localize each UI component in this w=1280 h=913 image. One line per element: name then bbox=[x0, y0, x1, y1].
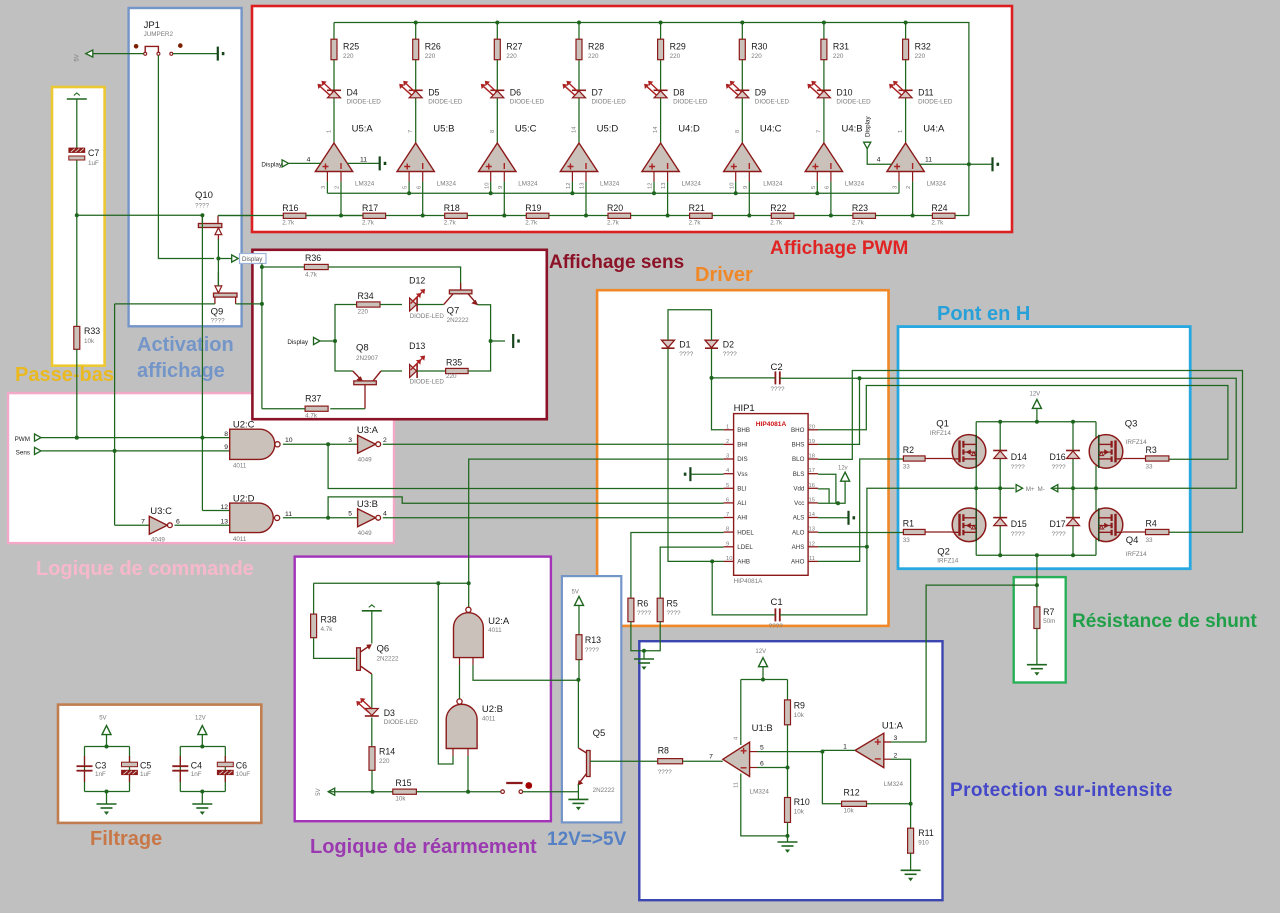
wire bridge top rail bbox=[976, 421, 1096, 423]
svg-text:12V: 12V bbox=[1030, 392, 1041, 398]
power arrow 12V at Vcc bbox=[838, 466, 850, 482]
nand U2:C bbox=[224, 420, 293, 470]
resistor R33 bbox=[74, 326, 100, 349]
svg-text:Q7: Q7 bbox=[447, 305, 460, 316]
svg-text:Q2: Q2 bbox=[937, 546, 950, 557]
wire U1:A pin2 to R12 right bbox=[891, 759, 911, 828]
power symbol at U5:A pin11 bbox=[380, 156, 387, 170]
svg-text:DIS: DIS bbox=[737, 456, 747, 463]
LED D10 bbox=[807, 81, 871, 106]
svg-text:D6: D6 bbox=[510, 88, 521, 98]
svg-text:R18: R18 bbox=[444, 203, 460, 213]
svg-text:LDEL: LDEL bbox=[737, 544, 753, 551]
svg-text:HIP4081A: HIP4081A bbox=[756, 421, 787, 428]
svg-text:10k: 10k bbox=[794, 809, 805, 816]
ground below R10 bbox=[778, 842, 798, 853]
svg-text:2.7k: 2.7k bbox=[525, 220, 538, 227]
svg-text:U3:C: U3:C bbox=[150, 506, 172, 517]
svg-text:????: ???? bbox=[1011, 464, 1026, 471]
resistor R1 bbox=[903, 519, 925, 545]
svg-text:4.7k: 4.7k bbox=[305, 272, 318, 279]
diode D2 bbox=[705, 339, 737, 358]
svg-text:R9: R9 bbox=[794, 701, 805, 711]
svg-text:????: ???? bbox=[1052, 531, 1067, 538]
jumper JP1 bbox=[134, 20, 183, 55]
title Activation affichage line2 bbox=[137, 360, 225, 382]
svg-text:12V=>5V: 12V=>5V bbox=[547, 829, 627, 850]
resistor R6 bbox=[628, 598, 652, 622]
svg-text:R17: R17 bbox=[362, 203, 378, 213]
svg-text:4011: 4011 bbox=[488, 627, 502, 634]
svg-text:R3: R3 bbox=[1146, 445, 1157, 455]
switch reset button bbox=[501, 782, 532, 793]
wire JP1 pin3 to power bbox=[173, 53, 217, 55]
wire net BHI from U3:A to HIP pin2 bbox=[383, 443, 724, 445]
svg-text:D17: D17 bbox=[1050, 519, 1066, 529]
svg-text:2: 2 bbox=[726, 439, 729, 445]
svg-text:R13: R13 bbox=[585, 635, 601, 645]
svg-text:5V: 5V bbox=[572, 590, 579, 596]
svg-text:2.7k: 2.7k bbox=[931, 220, 944, 227]
resistor R9 bbox=[785, 700, 806, 725]
svg-text:9: 9 bbox=[726, 541, 729, 547]
svg-text:affichage: affichage bbox=[137, 360, 225, 382]
wire rail to R36 bbox=[262, 266, 305, 268]
svg-text:U4:C: U4:C bbox=[760, 124, 782, 135]
svg-text:Q1: Q1 bbox=[936, 419, 949, 430]
svg-text:????: ???? bbox=[658, 769, 673, 776]
terminal 5V left arrow bbox=[316, 788, 335, 796]
svg-text:????: ???? bbox=[1052, 464, 1067, 471]
svg-text:R5: R5 bbox=[667, 599, 678, 609]
svg-text:9: 9 bbox=[498, 186, 504, 189]
svg-text:10k: 10k bbox=[844, 808, 855, 815]
wire switch to ground node bbox=[523, 791, 579, 793]
wire D13 to R35 bbox=[417, 370, 446, 372]
region box Activation affichage bbox=[129, 8, 242, 326]
svg-text:U5:C: U5:C bbox=[515, 124, 537, 135]
resistor R24 bbox=[931, 203, 955, 227]
svg-text:13: 13 bbox=[220, 518, 228, 525]
inverter U3:C bbox=[149, 506, 180, 544]
svg-text:ALI: ALI bbox=[737, 500, 747, 507]
svg-text:DIODE-LED: DIODE-LED bbox=[347, 99, 382, 106]
svg-text:R31: R31 bbox=[833, 42, 849, 52]
svg-text:4011: 4011 bbox=[233, 536, 247, 543]
svg-text:Display: Display bbox=[865, 116, 872, 137]
nand U2:D bbox=[220, 493, 292, 543]
region box Filtrage bbox=[58, 705, 261, 823]
svg-text:C7: C7 bbox=[88, 148, 99, 158]
transistor Q9 bbox=[211, 272, 237, 325]
terminal M- bbox=[1038, 485, 1058, 494]
wire R14 to bottom row bbox=[371, 770, 373, 791]
svg-text:13: 13 bbox=[580, 183, 586, 189]
svg-text:R6: R6 bbox=[637, 599, 648, 609]
title Activation affichage line1 bbox=[137, 334, 234, 356]
region box Logique de rearmement bbox=[295, 557, 551, 822]
svg-text:R37: R37 bbox=[305, 393, 321, 403]
svg-text:Q8: Q8 bbox=[356, 343, 369, 354]
svg-text:12v: 12v bbox=[838, 466, 848, 472]
svg-text:U2:C: U2:C bbox=[233, 420, 255, 431]
wire net BLO to R4 bbox=[818, 371, 1242, 533]
svg-text:1: 1 bbox=[898, 130, 904, 133]
op-amp U4:B bbox=[805, 124, 864, 190]
power arrow 5V filtrage bbox=[99, 715, 111, 734]
resistor R28 bbox=[576, 39, 604, 60]
wire junction to Display terminal bbox=[218, 258, 231, 260]
svg-text:R16: R16 bbox=[282, 203, 298, 213]
op-amp U1:A bbox=[843, 721, 904, 788]
wire rail to U2:B input left bbox=[438, 583, 453, 764]
svg-text:10: 10 bbox=[285, 437, 293, 444]
wire 12V rail protection bbox=[762, 667, 764, 680]
wire R34 to D12 bbox=[380, 304, 402, 306]
wire U5:D inputs bbox=[571, 182, 573, 194]
svg-text:R7: R7 bbox=[1043, 607, 1054, 617]
svg-text:C1: C1 bbox=[771, 597, 783, 608]
svg-text:4.7k: 4.7k bbox=[305, 413, 318, 420]
title Resistance de shunt bbox=[1072, 611, 1257, 632]
wire U4:B inputs bbox=[816, 182, 818, 194]
wire Q5 emitter to ground bbox=[577, 784, 579, 799]
svg-text:220: 220 bbox=[343, 53, 354, 60]
svg-text:14: 14 bbox=[653, 126, 659, 133]
svg-text:R35: R35 bbox=[446, 357, 462, 367]
nand U2:B rotated bbox=[446, 699, 503, 756]
svg-text:R29: R29 bbox=[670, 42, 686, 52]
wire mid rail right M- bbox=[1051, 487, 1190, 489]
svg-text:????: ???? bbox=[771, 386, 786, 393]
wire R11 to ground bbox=[910, 853, 912, 870]
capacitor C7 bbox=[69, 148, 100, 167]
wire U2:D out bbox=[283, 517, 358, 519]
svg-text:HIP4081A: HIP4081A bbox=[734, 578, 764, 585]
capacitor C1 bbox=[769, 597, 784, 630]
region box Resistance de shunt bbox=[1014, 577, 1066, 682]
svg-text:Display: Display bbox=[287, 339, 308, 346]
diode D14 bbox=[993, 451, 1027, 472]
svg-text:Affichage sens: Affichage sens bbox=[549, 252, 684, 273]
svg-text:LM324: LM324 bbox=[437, 181, 457, 188]
svg-text:R20: R20 bbox=[607, 203, 623, 213]
svg-text:Résistance de shunt: Résistance de shunt bbox=[1072, 611, 1257, 632]
svg-text:Q9: Q9 bbox=[211, 306, 224, 317]
terminal M+ bbox=[1016, 485, 1035, 494]
wire Q10 gate bus vertical bbox=[201, 215, 203, 510]
resistor R18 bbox=[444, 203, 468, 227]
transistor Q10 bbox=[195, 190, 222, 240]
svg-text:D9: D9 bbox=[755, 88, 766, 98]
power arrow 12V bridge bbox=[1030, 392, 1042, 409]
power symbol at JP1 bbox=[218, 47, 225, 61]
svg-text:U5:D: U5:D bbox=[597, 124, 619, 135]
ground above Q6 bbox=[362, 605, 382, 611]
diode D16 bbox=[1050, 451, 1080, 472]
region box Passe-bas bbox=[52, 87, 105, 366]
svg-text:1nF: 1nF bbox=[191, 771, 202, 778]
wire 12V to Vcc Vdd BLS bbox=[818, 481, 845, 503]
svg-text:R4: R4 bbox=[1146, 519, 1157, 529]
svg-text:Vdd: Vdd bbox=[793, 486, 805, 493]
svg-text:2.7k: 2.7k bbox=[770, 220, 783, 227]
wire Q9 drain right to sens rail bbox=[236, 303, 262, 305]
svg-text:R10: R10 bbox=[794, 797, 810, 807]
svg-text:Driver: Driver bbox=[695, 264, 753, 286]
svg-text:6: 6 bbox=[726, 497, 729, 503]
svg-text:9: 9 bbox=[224, 444, 228, 451]
svg-text:12V: 12V bbox=[755, 649, 766, 655]
svg-text:DIODE-LED: DIODE-LED bbox=[592, 99, 627, 106]
svg-text:2.7k: 2.7k bbox=[444, 220, 457, 227]
wire R33 to PWM bus bbox=[76, 349, 78, 437]
title Driver bbox=[695, 264, 753, 286]
diode D17 bbox=[1050, 518, 1080, 538]
terminal PWM bbox=[15, 434, 41, 443]
ground filtrage C3 bbox=[97, 792, 117, 815]
ground filtrage C4 bbox=[192, 792, 212, 815]
svg-text:DIODE-LED: DIODE-LED bbox=[918, 99, 953, 106]
terminal Display input of U5:A bbox=[261, 160, 288, 169]
wire Q9 gate from Display junction bbox=[217, 259, 219, 286]
svg-text:12: 12 bbox=[648, 183, 654, 189]
wire Q10 gate to Display junction bbox=[217, 239, 219, 259]
svg-text:D3: D3 bbox=[384, 708, 395, 718]
op-amp U5:D bbox=[560, 124, 619, 190]
svg-text:33: 33 bbox=[903, 464, 911, 471]
terminal Display input of U4:A bbox=[864, 116, 872, 149]
svg-text:8: 8 bbox=[224, 431, 228, 438]
resistor R21 bbox=[689, 203, 713, 227]
resistor R22 bbox=[770, 203, 794, 227]
power symbol sens bbox=[513, 334, 520, 348]
svg-text:DIODE-LED: DIODE-LED bbox=[428, 99, 463, 106]
wire Q3 gate to R3 bbox=[1123, 458, 1146, 460]
wire D12 to Q7 base bbox=[417, 304, 444, 306]
svg-text:18: 18 bbox=[809, 454, 815, 460]
svg-text:220: 220 bbox=[588, 53, 599, 60]
svg-text:4: 4 bbox=[307, 157, 311, 164]
svg-text:D11: D11 bbox=[918, 88, 934, 98]
wire chain segment after R21 bbox=[712, 215, 771, 217]
wire U5:A inputs bbox=[326, 182, 328, 194]
wire gnd to C7 bbox=[76, 99, 78, 148]
svg-text:????: ???? bbox=[195, 203, 210, 210]
wire ALS to power bbox=[818, 517, 847, 519]
transistor Q8 bbox=[353, 343, 381, 409]
svg-text:DIODE-LED: DIODE-LED bbox=[510, 99, 545, 106]
svg-text:2N2222: 2N2222 bbox=[593, 787, 616, 794]
svg-text:14: 14 bbox=[809, 512, 816, 518]
svg-text:33: 33 bbox=[903, 537, 911, 544]
wire R2 to Q1 gate bbox=[925, 458, 952, 460]
svg-text:5: 5 bbox=[403, 186, 409, 189]
terminal Display input sens bbox=[287, 337, 320, 346]
svg-text:R25: R25 bbox=[343, 42, 359, 52]
svg-text:Vss: Vss bbox=[737, 471, 747, 478]
wire mid rail left M+ bbox=[898, 487, 1015, 489]
svg-text:R12: R12 bbox=[844, 788, 860, 798]
wire filter node to Q10 source bbox=[77, 214, 203, 216]
svg-text:Pont en H: Pont en H bbox=[937, 303, 1030, 325]
svg-text:R26: R26 bbox=[425, 42, 441, 52]
svg-text:????: ???? bbox=[637, 610, 652, 617]
svg-text:20: 20 bbox=[809, 424, 815, 430]
resistor R3 bbox=[1146, 445, 1169, 470]
wire 12V to top rail bbox=[1036, 408, 1038, 421]
svg-text:33: 33 bbox=[1146, 464, 1154, 471]
svg-text:AHO: AHO bbox=[791, 559, 805, 566]
svg-text:R11: R11 bbox=[918, 828, 934, 838]
wire left leg bbox=[975, 422, 977, 556]
wire Q6 collector to D3 bbox=[371, 674, 373, 709]
wire U5:A pin4 bbox=[289, 162, 321, 164]
LED D8 bbox=[644, 81, 708, 106]
wire Q7 emitter to right rail bbox=[478, 305, 491, 341]
svg-text:LM324: LM324 bbox=[355, 181, 375, 188]
title 12V to 5V bbox=[547, 829, 627, 850]
svg-text:220: 220 bbox=[379, 758, 390, 765]
resistor R35 bbox=[446, 357, 469, 380]
svg-text:DIODE-LED: DIODE-LED bbox=[410, 313, 445, 320]
svg-text:D1: D1 bbox=[679, 339, 690, 349]
svg-text:14: 14 bbox=[572, 126, 578, 133]
inverter U3:A bbox=[357, 425, 387, 463]
node pin11 rail junction bbox=[967, 162, 971, 166]
op-amp U4:A bbox=[887, 124, 946, 190]
svg-text:R22: R22 bbox=[770, 203, 786, 213]
wire C2 right to BHS riser bbox=[780, 377, 860, 379]
wire chain segment after R16 bbox=[306, 215, 363, 217]
resistor R32 bbox=[903, 39, 931, 60]
region box Logique de commande bbox=[8, 393, 394, 543]
svg-text:R30: R30 bbox=[751, 42, 767, 52]
svg-text:U2:B: U2:B bbox=[482, 704, 503, 715]
wire to U3:C input bbox=[115, 524, 150, 526]
svg-text:LM324: LM324 bbox=[750, 789, 770, 796]
svg-text:4049: 4049 bbox=[358, 530, 373, 537]
wire R35 to right rail bbox=[468, 341, 491, 371]
wire net BHS bootstrap bbox=[818, 378, 859, 444]
transistor Q3 bbox=[1089, 419, 1147, 469]
svg-text:220: 220 bbox=[670, 53, 681, 60]
svg-text:BHB: BHB bbox=[737, 427, 750, 434]
svg-text:4049: 4049 bbox=[151, 536, 166, 543]
wire R13 to node bbox=[578, 660, 580, 680]
wire D14 D15 column bbox=[999, 422, 1001, 556]
ground symbol above C7 bbox=[67, 93, 87, 99]
svg-text:1: 1 bbox=[843, 744, 847, 751]
svg-text:7: 7 bbox=[141, 519, 145, 526]
wire Q10 drain to R16 bbox=[218, 215, 252, 217]
wire R6 R5 to ground bbox=[631, 622, 660, 651]
svg-text:BLO: BLO bbox=[792, 456, 805, 463]
capacitor C3 bbox=[77, 756, 107, 782]
resistor R26 bbox=[413, 39, 441, 60]
svg-text:R19: R19 bbox=[525, 203, 541, 213]
svg-text:R34: R34 bbox=[358, 291, 374, 301]
wire column 6 vertical bbox=[741, 23, 743, 40]
svg-text:Q10: Q10 bbox=[195, 190, 213, 201]
svg-text:D14: D14 bbox=[1011, 452, 1027, 462]
wire column 5 vertical bbox=[660, 23, 662, 40]
diode D1 bbox=[662, 339, 694, 358]
wire right leg bbox=[1095, 422, 1097, 556]
svg-text:10k: 10k bbox=[84, 338, 95, 345]
svg-text:220: 220 bbox=[358, 309, 369, 316]
svg-text:U1:A: U1:A bbox=[882, 721, 904, 732]
wire bottom row bbox=[328, 791, 393, 793]
wire U4:D inputs bbox=[653, 182, 655, 194]
wire Q8 base to R37 bbox=[330, 408, 365, 410]
power symbol at U4:A pin11 bbox=[993, 157, 1000, 171]
svg-text:M-: M- bbox=[1038, 486, 1045, 493]
svg-text:220: 220 bbox=[506, 53, 517, 60]
svg-text:U5:B: U5:B bbox=[433, 124, 454, 135]
wire R36 to Q7 collector bbox=[328, 267, 460, 290]
terminal Display output bbox=[232, 255, 239, 262]
svg-text:5: 5 bbox=[811, 186, 817, 189]
svg-text:R33: R33 bbox=[84, 326, 100, 336]
svg-text:8: 8 bbox=[735, 130, 741, 133]
wire rail to power symbol bbox=[491, 340, 505, 342]
resistor R30 bbox=[739, 39, 767, 60]
resistor R19 bbox=[525, 203, 549, 227]
svg-text:R32: R32 bbox=[915, 42, 931, 52]
svg-text:4011: 4011 bbox=[233, 462, 247, 469]
wire R9 to pin6 node bbox=[787, 725, 789, 798]
region box Affichage PWM bbox=[252, 6, 1012, 232]
svg-text:Sens: Sens bbox=[16, 449, 30, 456]
svg-text:C4: C4 bbox=[191, 760, 202, 770]
diode D15 bbox=[993, 518, 1027, 538]
wire AHB riser to C1 bbox=[712, 561, 775, 615]
wire D16 D17 column bbox=[1072, 422, 1074, 556]
wire node to Q5 collector bbox=[577, 680, 579, 748]
svg-text:7: 7 bbox=[816, 130, 822, 133]
region box Protection sur-intensite bbox=[639, 641, 942, 900]
LED D9 bbox=[726, 81, 790, 106]
wire net HDEL to R6 bbox=[631, 533, 724, 599]
wire Display rail in sens box bbox=[261, 264, 263, 409]
wire base node up to R34 row bbox=[335, 305, 357, 342]
svg-text:10k: 10k bbox=[395, 796, 406, 803]
svg-text:ALO: ALO bbox=[792, 529, 805, 536]
svg-text:4: 4 bbox=[383, 511, 387, 518]
wire U4:A pin4 bbox=[867, 149, 891, 165]
op-amp U5:A bbox=[315, 124, 374, 190]
resistor R31 bbox=[821, 39, 849, 60]
svg-text:5V: 5V bbox=[99, 715, 106, 721]
wire column 7 vertical bbox=[823, 23, 825, 40]
svg-text:3: 3 bbox=[894, 735, 898, 742]
terminal 5V arrow at JP1 bbox=[75, 50, 93, 62]
svg-text:7: 7 bbox=[408, 130, 414, 133]
svg-text:????: ???? bbox=[585, 647, 600, 654]
svg-text:5: 5 bbox=[760, 745, 764, 752]
svg-text:Q6: Q6 bbox=[377, 644, 390, 655]
svg-text:D5: D5 bbox=[428, 88, 439, 98]
wire U2:A input left from U2:B out bbox=[459, 665, 461, 699]
wire sens feedback vertical bbox=[114, 304, 116, 525]
wire Q6 emitter up to ground bbox=[371, 611, 373, 644]
svg-text:8: 8 bbox=[726, 527, 729, 533]
wire R38 to Q6 base bbox=[314, 638, 356, 659]
wire pin6 row bbox=[757, 767, 788, 769]
wire Q5 base to R8 bbox=[590, 760, 658, 762]
svg-text:U2:D: U2:D bbox=[233, 493, 255, 504]
